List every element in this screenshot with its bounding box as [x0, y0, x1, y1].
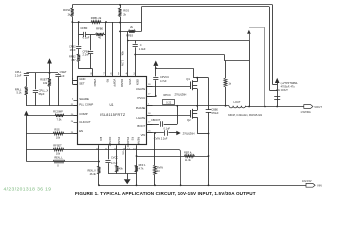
wire to pin — [105, 35, 107, 78]
Q1 source stub — [193, 88, 198, 90]
pin stub 4 — [74, 100, 78, 102]
svg-text:5.1k: 5.1k — [16, 91, 22, 95]
wire LGATE — [147, 115, 191, 117]
wire BOOT — [147, 124, 159, 126]
wire Q2 source — [197, 117, 199, 133]
junction — [98, 184, 100, 186]
wire — [104, 34, 105, 36]
svg-text:UGATE: UGATE — [136, 87, 146, 91]
svg-text:1.2%: 1.2% — [121, 60, 125, 67]
svg-text:10k: 10k — [56, 136, 61, 140]
wire — [120, 5, 122, 8]
wire — [277, 83, 279, 107]
svg-text:1.0uF: 1.0uF — [139, 47, 146, 51]
resistor RFF1 — [135, 165, 138, 172]
svg-text:OCSET: OCSET — [108, 137, 112, 147]
wire — [127, 31, 129, 77]
transistor Q2 channel — [192, 109, 194, 119]
svg-text:ISL8115FRTZ: ISL8115FRTZ — [100, 113, 126, 117]
svg-text:CPLL: CPLL — [15, 70, 22, 74]
wire — [154, 133, 156, 165]
svg-text:RSET: RSET — [40, 77, 47, 81]
svg-text:0.22: 0.22 — [166, 101, 172, 105]
wire jog to input cap — [193, 77, 208, 79]
junction — [78, 21, 80, 23]
svg-text:10V-15V: 10V-15V — [302, 180, 312, 183]
wire — [108, 145, 110, 159]
wire PVCC pin — [147, 96, 156, 98]
junction — [208, 155, 210, 157]
wire — [35, 73, 37, 89]
resistor ROS — [119, 8, 122, 17]
wire: VOUT sense line — [128, 40, 249, 42]
svg-text:(+VTPP 599ML: (+VTPP 599ML — [281, 82, 299, 85]
capacitor CBOOT — [160, 121, 162, 126]
wire — [127, 174, 129, 180]
wire — [125, 145, 127, 173]
wire — [141, 7, 143, 32]
resistor RFB3 — [129, 30, 136, 33]
wire — [78, 22, 80, 35]
pin stub 16 — [147, 132, 153, 134]
resistor RPLL — [25, 87, 28, 96]
wire — [169, 132, 177, 134]
svg-text:FIGURE 1. TYPICAL APPLICATION: FIGURE 1. TYPICAL APPLICATION CIRCUIT, 1… — [75, 191, 256, 196]
wire — [79, 34, 83, 36]
wire — [269, 90, 277, 92]
svg-text:Z76L6Z6H: Z76L6Z6H — [183, 132, 195, 135]
wire: left bus — [26, 116, 28, 162]
junction — [225, 105, 227, 107]
junction — [176, 105, 178, 107]
wire — [116, 145, 118, 165]
wire — [155, 66, 157, 77]
wire — [249, 41, 251, 107]
resistor RCOMP — [55, 114, 64, 117]
svg-text:10k: 10k — [56, 152, 61, 156]
wire gnd rail — [108, 173, 137, 175]
svg-text:RFB0: RFB0 — [96, 27, 103, 31]
pin stub 27 — [147, 96, 153, 98]
wire: VSEN- net — [141, 6, 269, 8]
svg-text:ISEN: ISEN — [136, 79, 140, 86]
svg-text:RCOMP: RCOMP — [53, 109, 63, 113]
wire — [108, 163, 110, 173]
wire to pin — [112, 22, 114, 77]
resistor 40k — [116, 165, 119, 172]
junction — [127, 40, 129, 42]
wire — [120, 17, 122, 78]
ground — [124, 179, 131, 184]
wire — [58, 72, 60, 75]
net arrow VCC — [153, 61, 158, 66]
wire — [135, 41, 137, 44]
net arrow VCC left — [47, 58, 52, 63]
resistor RFB2 — [77, 54, 80, 62]
wire — [78, 62, 80, 69]
wire sense- — [269, 7, 271, 90]
wire — [90, 35, 92, 51]
wire EN_L — [26, 161, 99, 163]
wire: Q1 source to phase — [197, 89, 199, 106]
wire — [164, 124, 178, 126]
wire VOUT — [246, 106, 304, 108]
wire — [72, 5, 74, 8]
wire — [78, 35, 80, 46]
svg-text:CVIN 2.2uF: CVIN 2.2uF — [154, 137, 168, 141]
svg-text:ROS1: ROS1 — [63, 8, 71, 12]
Q1 drain stub — [193, 81, 198, 83]
resistor REN_V — [98, 166, 101, 174]
wire step — [224, 55, 226, 61]
wire — [135, 47, 137, 77]
svg-text:56pF: 56pF — [39, 92, 45, 96]
junction — [276, 106, 278, 108]
wire: SET rail top — [26, 72, 58, 74]
junction — [119, 4, 121, 6]
svg-text:CBOOT: CBOOT — [151, 118, 161, 122]
svg-text:0.1uF: 0.1uF — [164, 127, 171, 131]
wire — [26, 95, 28, 106]
svg-text:VSEN: VSEN — [93, 79, 97, 87]
junction — [105, 21, 107, 23]
wire: rail to PLL COMP — [26, 105, 77, 107]
svg-text:470uF: 470uF — [211, 112, 219, 115]
resistor RPCC box — [163, 100, 175, 105]
svg-text:EN: EN — [79, 129, 83, 133]
wire — [26, 77, 28, 87]
wire sense col — [264, 28, 266, 107]
resistor REN_L — [53, 160, 65, 163]
wire — [249, 34, 251, 41]
svg-text:CFB0: CFB0 — [80, 26, 87, 30]
resistor RSET — [48, 78, 51, 87]
junction — [248, 106, 250, 108]
junction — [264, 106, 266, 108]
resistor RFB0 — [96, 33, 105, 36]
wire to SET pin — [72, 84, 77, 86]
wire VIN pin — [147, 132, 164, 134]
svg-text:FB: FB — [106, 79, 110, 83]
junction — [154, 132, 156, 134]
wire — [98, 145, 100, 166]
pin stub 2 — [74, 80, 78, 82]
svg-text:Z76L6Z6H: Z76L6Z6H — [175, 93, 187, 96]
wire faint sense — [249, 27, 265, 29]
wire — [79, 68, 93, 70]
wire — [78, 49, 80, 54]
wire — [193, 68, 195, 78]
svg-text:BOOT: BOOT — [137, 124, 145, 128]
svg-text:GND: GND — [79, 77, 85, 81]
svg-text:PLL COMP: PLL COMP — [79, 103, 93, 107]
wire — [49, 73, 51, 78]
svg-text:2.2nF: 2.2nF — [83, 53, 90, 57]
svg-text:U1: U1 — [109, 103, 113, 107]
resistor RSS — [53, 132, 64, 135]
wire: top VSEN+ net — [72, 4, 272, 6]
wire — [225, 87, 227, 106]
wire Q1 drain — [197, 78, 199, 82]
wire: VIN bus — [99, 185, 306, 187]
pin stub 17 — [147, 124, 153, 126]
junction — [136, 155, 138, 157]
wire CBOOT to phase — [177, 106, 179, 124]
wire — [72, 17, 74, 85]
Q2 source stub — [193, 117, 198, 119]
svg-text:330nH, 0.32mohm, PA1515-321: 330nH, 0.32mohm, PA1515-321 — [228, 114, 263, 117]
wire to FB pin — [92, 69, 94, 77]
capacitor COUT — [274, 96, 280, 98]
wire — [86, 34, 96, 36]
resistor RFB1 — [91, 21, 101, 24]
capacitor CSET — [55, 74, 60, 76]
resistor REF_A — [184, 155, 194, 158]
capacitor CVCC — [105, 160, 110, 162]
svg-text:RFB1 2k: RFB1 2k — [91, 16, 102, 20]
svg-text:PGOOD: PGOOD — [126, 137, 130, 147]
Q2 drain stub — [193, 110, 198, 112]
junction — [71, 21, 73, 23]
junction — [49, 72, 51, 74]
capacitor CVIN — [164, 130, 166, 135]
junction — [155, 67, 157, 69]
svg-text:CLKOUT: CLKOUT — [79, 120, 91, 124]
junction — [136, 184, 138, 186]
op-amp U1 ISL8115FRTZ body — [78, 77, 147, 145]
wire — [136, 145, 138, 185]
svg-text:11.3k: 11.3k — [185, 159, 192, 162]
junction — [196, 77, 198, 79]
svg-text:VOUT: VOUT — [314, 105, 322, 109]
pin stub 1 — [147, 105, 153, 107]
svg-text:4.7uF: 4.7uF — [160, 79, 167, 83]
wire — [90, 54, 92, 69]
wire — [116, 172, 118, 174]
svg-text:PHASE: PHASE — [136, 106, 146, 110]
wire sense+ — [272, 5, 274, 85]
svg-text:16nF: 16nF — [70, 48, 76, 52]
svg-text:PGND: PGND — [117, 137, 121, 145]
wire to gnd bus — [208, 112, 210, 185]
svg-text:SHARE: SHARE — [79, 97, 89, 101]
svg-text:14x COUT: 14x COUT — [276, 89, 288, 92]
svg-text:1.5V/30A: 1.5V/30A — [300, 111, 311, 114]
svg-text:CPVCC: CPVCC — [160, 75, 169, 79]
svg-text:COMP: COMP — [79, 112, 88, 116]
wire: FB node — [72, 22, 141, 24]
pin stub 21 — [74, 105, 78, 107]
capacitor C1 — [133, 44, 138, 46]
wire — [58, 77, 60, 106]
wire input cap column — [208, 78, 210, 110]
transistor Q1 gate bar — [190, 82, 192, 90]
wire — [273, 84, 278, 86]
svg-text:0.1uF: 0.1uF — [83, 36, 90, 40]
svg-text:470SuF, 4Tu: 470SuF, 4Tu — [281, 85, 296, 88]
junction — [134, 54, 136, 56]
junction — [196, 105, 198, 107]
svg-text:C: C — [140, 43, 142, 47]
junction — [155, 95, 157, 97]
wire UGATE — [147, 86, 191, 88]
junction — [208, 184, 210, 186]
net arrow up — [247, 30, 251, 34]
wire COMP — [26, 115, 77, 117]
svg-text:REF A: REF A — [184, 151, 192, 154]
svg-text:VDIFF: VDIFF — [113, 79, 117, 87]
svg-text:LOUT: LOUT — [234, 100, 241, 104]
svg-text:CPLL_X: CPLL_X — [39, 89, 49, 93]
svg-text:RPLL: RPLL — [15, 87, 22, 91]
svg-text:REN_L: REN_L — [54, 156, 63, 160]
resistor ROS1 — [71, 8, 74, 17]
capacitor CFB2 — [76, 46, 81, 48]
wire EN — [26, 133, 77, 135]
svg-text:CVCC: CVCC — [111, 157, 118, 160]
Q2 body stub — [193, 113, 198, 115]
wire REF_A — [137, 156, 209, 158]
pin stub 18 — [147, 115, 153, 117]
svg-text:VOS: VOS — [128, 79, 132, 85]
pin stub 28 — [147, 86, 153, 88]
svg-text:FS: FS — [131, 137, 135, 141]
pin stub 20 — [74, 115, 78, 117]
svg-text:Q2: Q2 — [187, 118, 191, 122]
junction — [208, 133, 210, 135]
svg-text:RGND: RGND — [120, 79, 124, 87]
svg-text:4/23/201318 36 19: 4/23/201318 36 19 — [4, 187, 52, 193]
svg-text:Q1: Q1 — [186, 77, 190, 81]
svg-text:46.4k: 46.4k — [90, 173, 97, 176]
wire sense RC top — [224, 60, 249, 62]
transistor Q1 channel — [192, 80, 194, 90]
svg-text:7.5k: 7.5k — [57, 118, 63, 122]
wire sense feed — [135, 54, 224, 56]
svg-text:RSS: RSS — [54, 127, 60, 131]
svg-text:RPCC: RPCC — [164, 93, 171, 97]
junction — [98, 161, 100, 163]
Q1 body stub — [193, 85, 198, 87]
wire FSET to gnd bus — [26, 150, 180, 186]
svg-text:REFA: REFA — [137, 137, 141, 144]
wire — [49, 87, 51, 106]
wire PHASE — [147, 105, 230, 107]
wire to gnd column — [197, 133, 208, 135]
net arrow VOUT — [275, 78, 280, 83]
wire: VIN rail — [156, 68, 194, 70]
pin stub 24 — [74, 122, 78, 124]
capacitor CPLL_X — [33, 90, 38, 92]
svg-text:4.7k: 4.7k — [139, 167, 144, 170]
capacitor CPVCC — [153, 77, 158, 79]
wire — [105, 22, 107, 35]
junction — [154, 184, 156, 186]
wire to GND pin — [72, 80, 77, 82]
connector VIN flag — [306, 183, 315, 187]
capacitor CFB0 — [83, 32, 85, 37]
pin stub 3 — [74, 84, 78, 86]
svg-text:PVCC: PVCC — [138, 96, 146, 100]
capacitor CBB0 — [206, 109, 212, 111]
svg-text:EN: EN — [99, 137, 103, 141]
svg-text:ROS: ROS — [123, 9, 129, 13]
wire — [225, 61, 227, 78]
wire — [49, 64, 51, 74]
svg-text:VIN: VIN — [317, 184, 322, 188]
net arrow VIN — [176, 131, 180, 135]
resistor RS — [224, 78, 227, 87]
resistor RVIN — [154, 165, 157, 175]
junction — [180, 184, 182, 186]
svg-text:CSET: CSET — [60, 70, 67, 74]
svg-text:16k: 16k — [43, 81, 48, 85]
svg-text:SET: SET — [79, 82, 85, 86]
svg-text:2.2uF: 2.2uF — [15, 73, 22, 77]
pin stub 25 — [74, 133, 78, 135]
capacitor CFB1 — [88, 51, 93, 53]
wire — [154, 175, 156, 185]
resistor RFSET — [53, 148, 64, 151]
svg-text:787: 787 — [71, 58, 76, 62]
junction — [119, 22, 121, 24]
junction — [119, 31, 121, 33]
capacitor CPLL — [24, 73, 29, 75]
svg-text:1nF: 1nF — [60, 74, 65, 78]
wire — [35, 93, 37, 106]
svg-text:40k: 40k — [121, 51, 125, 56]
svg-text:RFSET: RFSET — [53, 143, 62, 147]
wire — [155, 80, 157, 96]
wire — [120, 31, 141, 33]
wire phase to Q2 drain — [197, 106, 199, 111]
inductor LOUT — [229, 106, 246, 108]
wire — [98, 174, 100, 185]
svg-text:VCC: VCC — [122, 151, 124, 156]
svg-text:LGATE: LGATE — [136, 116, 145, 120]
connector VOUT flag — [304, 105, 313, 109]
net arrow VCC bus — [24, 111, 29, 116]
transistor Q2 gate bar — [190, 110, 192, 118]
